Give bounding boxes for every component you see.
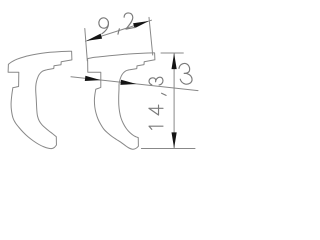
dim 14,3 arrow up <box>172 53 177 69</box>
dim 9,2 arrow left <box>86 34 102 41</box>
dim text 3 <box>178 63 192 85</box>
dim text 9,2 <box>98 12 136 37</box>
dim 14,3 top extension line <box>161 52 183 54</box>
left seal profile <box>8 51 72 148</box>
dim 9,2 arrow right <box>133 21 149 28</box>
dim 14,3 bottom extension line <box>141 148 195 150</box>
right seal profile <box>88 53 155 149</box>
dim text 14,3 <box>149 77 166 129</box>
dim 9,2 extension line right <box>149 17 153 55</box>
dim 3 arrow at claw inner edge <box>120 80 136 85</box>
dim 9,2 extension line left <box>85 29 88 61</box>
dim 14,3 dimension line <box>173 54 175 148</box>
dim 9,2 dimension line <box>86 20 152 41</box>
dim 14,3 arrow down <box>172 132 177 148</box>
dim 3 arrow at notch edge <box>85 76 101 81</box>
dim 3 leader line <box>71 77 198 91</box>
